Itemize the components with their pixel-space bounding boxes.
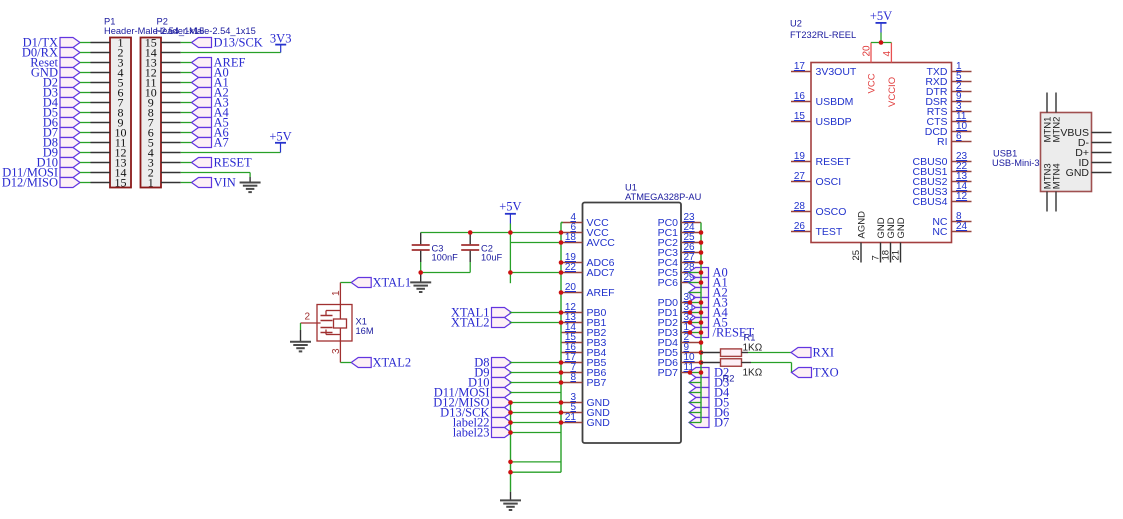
U1 pin 11 PD7 (right): [658, 362, 701, 379]
svg-text:D12/MISO: D12/MISO: [2, 176, 58, 190]
net flag D9 (at U1): [474, 366, 511, 380]
svg-text:AVCC: AVCC: [587, 237, 616, 249]
wire XTAL1 to U1: [510, 312, 562, 314]
wire D11/MOSI to U1: [510, 392, 562, 394]
svg-text:TEST: TEST: [816, 226, 843, 238]
U2 pin 2 DTR (right): [926, 81, 972, 98]
U2 pin 11 CTS (right): [927, 111, 972, 128]
wire A7 to P2: [181, 142, 192, 144]
svg-text:16: 16: [794, 91, 806, 102]
USB1 pin MTN3 (bottom): [1043, 163, 1054, 211]
wire D6 stub: [689, 412, 701, 414]
wire RESET to P2: [181, 162, 192, 164]
wire label22 to U1: [510, 422, 562, 424]
net flag A2 (right of U1): [689, 286, 728, 300]
wire A0 to P2: [181, 72, 192, 74]
U1 pin 12 PB0 (left): [561, 302, 607, 319]
U2 pin 17 3V3OUT (left): [791, 61, 857, 78]
svg-text:FT232RL-REEL: FT232RL-REEL: [790, 30, 856, 40]
wire A1 stub: [689, 282, 702, 284]
net flag A7 (P2): [192, 136, 229, 150]
U1 pin 8 PB7 (left): [561, 372, 607, 389]
power symbol +5V (above U2): [870, 9, 892, 33]
ground symbol (below C3): [410, 282, 431, 292]
ground symbol (below U1): [500, 500, 521, 510]
U2 pin 19 RESET (left): [791, 151, 851, 168]
wire D9 to P1 pin 12: [80, 152, 91, 154]
svg-text:PD7: PD7: [658, 367, 679, 379]
net flag label22 (at U1): [453, 416, 512, 430]
wire bottom ground loop of U1: [511, 403, 562, 501]
svg-text:XTAL1: XTAL1: [373, 276, 412, 290]
svg-text:19: 19: [794, 151, 806, 162]
svg-text:label23: label23: [453, 426, 490, 440]
wire GND to P1 pin 4: [80, 72, 91, 74]
wire A5 to P2: [181, 122, 192, 124]
net flag D3 (P1 pin 6): [43, 86, 80, 100]
svg-text:USBDP: USBDP: [816, 116, 852, 128]
U1 pin 7 PB6 (left): [561, 362, 607, 379]
wire D7 stub: [689, 422, 701, 424]
svg-text:ATMEGA328P-AU: ATMEGA328P-AU: [625, 192, 701, 202]
net flag XTAL2 (crystal): [351, 356, 411, 370]
wire D5 to P1 pin 8: [80, 112, 91, 114]
svg-text:GND: GND: [896, 217, 907, 238]
svg-text:25: 25: [851, 250, 862, 261]
USB1 pin GND (right): [1066, 167, 1112, 179]
crystal X1 16M: [301, 283, 353, 363]
U1 pin 14 PB2 (left): [561, 322, 607, 339]
svg-text:AGND: AGND: [857, 211, 868, 239]
net flag /RESET (right of U1): [689, 326, 755, 340]
wire label23 to U1: [510, 432, 562, 434]
label R2 refdes: [723, 374, 735, 384]
svg-text:20: 20: [565, 282, 577, 293]
power symbol +5V (near U1): [499, 200, 521, 224]
U2 pin 1 TXD (right): [927, 61, 972, 78]
U1 pin 1 PD3 (right): [658, 322, 701, 339]
svg-text:GND: GND: [1066, 167, 1090, 179]
label C2 value 10uF: [481, 253, 503, 263]
wire vertical bus left of U1: [561, 223, 563, 473]
U1 pin 9 PD5 (right): [658, 342, 701, 359]
wire X1 pin2 to ground: [300, 323, 302, 342]
wire XTAL2 to U1: [510, 322, 562, 324]
label P1 refdes: [104, 17, 115, 27]
net flag XTAL2 (at U1 PB1): [451, 316, 512, 330]
capacitor C3 100nF: [412, 233, 430, 263]
header P2: [141, 36, 181, 190]
net flag D2 (right of U1): [689, 366, 729, 380]
svg-text:VIN: VIN: [214, 176, 236, 190]
svg-text:100nF: 100nF: [432, 253, 459, 263]
label P2 refdes: [157, 17, 168, 27]
U2 pin 8 NC (right): [932, 211, 971, 228]
net flag D11/MOSI (P1 pin 14): [2, 166, 80, 180]
net flag A6 (P2): [192, 126, 229, 140]
resistor R1 1KOhm: [701, 349, 748, 357]
X1 pin number 3: [331, 348, 342, 354]
U2 pin 26 TEST (left): [791, 221, 843, 238]
svg-text:U2: U2: [790, 19, 802, 29]
ground symbol (at X1): [290, 342, 311, 352]
net flag D8 (at U1): [474, 356, 511, 370]
ground symbol (near VIN): [240, 183, 261, 193]
wire A4 stub: [689, 312, 702, 314]
U2 pin 12 CBUS4 (right): [912, 191, 971, 208]
net flag A2 (P2): [192, 86, 229, 100]
net flag A5 (right of U1): [689, 316, 728, 330]
net flag A0 (P2): [192, 66, 229, 80]
wire A3 to P2: [181, 102, 192, 104]
label P2 value Header-Male-2.54_1x15: [156, 26, 256, 36]
net flag XTAL1 (crystal): [351, 276, 411, 290]
svg-text:21: 21: [565, 412, 577, 423]
U2 pin 7 GND (bottom): [871, 217, 888, 262]
svg-text:RXI: RXI: [813, 346, 835, 360]
wire D6 to P1 pin 9: [80, 122, 91, 124]
svg-text:1: 1: [148, 176, 154, 190]
wire D8 to P1 pin 11: [80, 142, 91, 144]
U1 pin 22 ADC7 (left): [561, 262, 615, 279]
svg-text:3V3OUT: 3V3OUT: [816, 66, 857, 78]
svg-text:15: 15: [115, 176, 127, 190]
net flag RXI: [791, 346, 834, 360]
label R2 value 1KOhm: [743, 368, 763, 379]
U1 pin 3 GND (left): [561, 392, 610, 409]
U2 pin 5 RXD (right): [925, 71, 971, 88]
net flag D12/MISO (at U1): [433, 396, 511, 410]
wire D0/RX to P1 pin 2: [80, 52, 91, 54]
net flag A3 (P2): [192, 96, 229, 110]
svg-text:18: 18: [565, 232, 577, 243]
svg-text:OSCO: OSCO: [816, 206, 847, 218]
svg-text:17: 17: [794, 61, 806, 72]
wire D12/MISO to P1 pin 15: [80, 182, 91, 184]
net flag D5 (right of U1): [689, 396, 729, 410]
net flag D10 (P1 pin 13): [36, 156, 80, 170]
svg-text:U1: U1: [625, 183, 637, 193]
wire /RESET stub: [689, 332, 702, 334]
wire C3/C2 bottom to ground: [421, 262, 471, 282]
wire +5V net top rail to U1: [421, 224, 561, 284]
svg-text:RESET: RESET: [816, 156, 852, 168]
net flag D13/SCK (P2): [192, 36, 263, 50]
U1 pin 31 PD1 (right): [658, 302, 701, 319]
U1 pin 32 PD2 (right): [658, 312, 701, 329]
svg-text:GND: GND: [587, 417, 611, 429]
net flag D13/SCK (at U1): [440, 406, 511, 420]
wire A6 to P2: [181, 132, 192, 134]
U1 pin 19 ADC6 (left): [561, 252, 615, 269]
svg-text:26: 26: [794, 221, 806, 232]
U1 pin 6 VCC (left): [561, 222, 609, 239]
svg-text:OSCI: OSCI: [816, 176, 842, 188]
power symbol 3V3: [270, 32, 292, 46]
net flag D10 (at U1): [468, 376, 512, 390]
label P1 value Header-Male-2.54_1x15: [104, 26, 204, 36]
U2 pin 14 CBUS3 (right): [912, 181, 971, 198]
wire D13/SCK to P2: [181, 42, 192, 44]
wire A3 stub: [689, 302, 702, 304]
net flag XTAL1 (at U1 PB0): [451, 306, 512, 320]
U1 pin 21 GND (left): [561, 412, 610, 429]
svg-text:ADC7: ADC7: [587, 267, 615, 279]
U2 pin 28 OSCO (left): [791, 201, 846, 218]
junction dots left bus: [418, 230, 563, 474]
svg-text:RESET: RESET: [214, 156, 253, 170]
U1 pin 28 PC5 (right): [658, 262, 701, 279]
wire D10 to U1: [510, 382, 562, 384]
svg-text:NC: NC: [932, 226, 948, 238]
U1 pin 18 AVCC (left): [561, 232, 615, 249]
label X1 value 16M: [356, 326, 374, 336]
label C3 value 100nF: [432, 253, 459, 263]
U1 pin 24 PC1 (right): [658, 222, 701, 239]
wire A1 to P2: [181, 82, 192, 84]
label C2: [481, 244, 493, 254]
wire net +5V from P2 pin 4: [181, 143, 281, 153]
net flag D12/MISO (P1 pin 15): [2, 176, 80, 190]
wire D8 to U1: [510, 362, 562, 364]
label C3: [432, 244, 444, 254]
label U2 refdes: [790, 19, 802, 29]
label R1 refdes: [744, 333, 756, 343]
wire A2 to P2: [181, 92, 192, 94]
svg-text:6: 6: [956, 131, 962, 142]
label U1 refdes: [625, 183, 637, 193]
wire D3 stub: [689, 382, 701, 384]
U2 pin 22 CBUS1 (right): [912, 161, 971, 178]
svg-text:15: 15: [794, 111, 806, 122]
wire A0 stub: [689, 272, 702, 274]
wire D5 stub: [689, 402, 701, 404]
net flag D11/MOSI (at U1): [434, 386, 512, 400]
USB1 pin VBUS (right): [1060, 127, 1111, 139]
wire D11/MOSI to P1 pin 14: [80, 172, 91, 174]
net flag A1 (right of U1): [689, 276, 728, 290]
USB1 pin MTN1 (top): [1043, 93, 1054, 143]
U2 pin 21 GND (bottom): [891, 217, 908, 262]
connector USB1 USB-Mini-3 body: [1041, 113, 1092, 192]
wire R1 to RXI: [748, 352, 791, 354]
net flag D0/RX (P1 pin 2): [22, 46, 80, 60]
power symbol +5V (near P2): [269, 130, 291, 144]
U1 pin 17 PB5 (left): [561, 352, 607, 369]
svg-text:TXO: TXO: [813, 366, 839, 380]
U2 pin 3 RTS (right): [927, 101, 972, 118]
svg-text:24: 24: [956, 221, 968, 232]
svg-text:XTAL2: XTAL2: [373, 356, 412, 370]
net flag label23 (at U1): [453, 426, 512, 440]
X1 pin number 1: [331, 290, 342, 296]
svg-text:USB1: USB1: [993, 149, 1017, 159]
net flag TXO: [792, 366, 839, 380]
wire D2 stub: [689, 372, 701, 374]
svg-text:+5V: +5V: [870, 9, 892, 23]
U2 pin 24 NC (right): [932, 221, 971, 238]
svg-text:X1: X1: [356, 317, 367, 327]
wire D2 to P1 pin 5: [80, 82, 91, 84]
net flag A0 (right of U1): [689, 266, 728, 280]
USB1 pin D- (right): [1078, 137, 1112, 149]
junction dot U2 +5V: [879, 40, 884, 45]
U1 pin 10 PD6 (right): [658, 352, 701, 369]
net flag Reset (P1 pin 3): [30, 56, 80, 70]
USB1 pin MTN4 (bottom): [1052, 163, 1063, 211]
wire D3 to P1 pin 6: [80, 92, 91, 94]
U2 pin 16 USBDM (left): [791, 91, 853, 108]
svg-text:27: 27: [794, 171, 806, 182]
net flag D4 (P1 pin 7): [43, 96, 80, 110]
label X1 refdes: [356, 317, 367, 327]
U2 pin 18 GND (bottom): [881, 217, 898, 262]
net flag VIN (P2): [192, 176, 236, 190]
U1 pin 30 PD0 (right): [658, 292, 701, 309]
net flag A4 (P2): [192, 106, 230, 120]
svg-text:USBDM: USBDM: [816, 96, 854, 108]
U2 pin 10 DCD (right): [925, 121, 972, 138]
label U2 value FT232RL-REEL: [790, 30, 856, 40]
svg-text:VCC: VCC: [867, 73, 878, 93]
U2 pin 13 CBUS2 (right): [912, 171, 971, 188]
net flag D5 (P1 pin 8): [43, 106, 80, 120]
net flag D6 (P1 pin 9): [43, 116, 80, 130]
U2 pin 4 VCCIO (top): [882, 43, 898, 108]
net flag AREF (P2): [192, 56, 246, 70]
U1 pin 27 PC4 (right): [658, 252, 701, 269]
wire D12/MISO to U1: [510, 402, 562, 404]
op IC U1 ATMEGA328P-AU body: [583, 203, 682, 444]
net flag D3 (right of U1): [689, 376, 729, 390]
wire A5 stub: [689, 322, 702, 324]
U1 pin 4 VCC (left): [561, 212, 609, 229]
wire D4 to P1 pin 7: [80, 102, 91, 104]
label USB1 refdes: [993, 149, 1017, 159]
svg-text:PB7: PB7: [587, 377, 607, 389]
wire XTAL1 at crystal: [340, 282, 351, 284]
net flag A5 (P2): [192, 116, 229, 130]
svg-text:D7: D7: [714, 416, 729, 430]
net flag D6 (right of U1): [689, 406, 729, 420]
wire D9 to U1: [510, 372, 562, 374]
capacitor C2 10uF: [461, 233, 479, 263]
net flag D7 (right of U1): [689, 416, 729, 430]
label USB1 value USB-Mini-3: [992, 158, 1040, 168]
svg-text:+5V: +5V: [499, 200, 521, 214]
U2 pin 25 AGND (bottom): [851, 211, 868, 263]
svg-text:XTAL2: XTAL2: [451, 316, 490, 330]
U2 pin 9 DSR (right): [925, 91, 971, 108]
wire R2 to TXO: [751, 363, 792, 373]
svg-text:8: 8: [570, 372, 576, 383]
svg-text:16M: 16M: [356, 326, 374, 336]
USB1 pin D+ (right): [1075, 147, 1111, 159]
U2 pin 23 CBUS0 (right): [912, 151, 971, 168]
wire D13/SCK to U1: [510, 412, 562, 414]
wire VIN to P2: [181, 182, 192, 184]
wire Reset to P1 pin 3: [80, 62, 91, 64]
svg-text:20: 20: [862, 45, 873, 57]
wire AREF to P2: [181, 62, 192, 64]
net flag A4 (right of U1): [689, 306, 729, 320]
svg-text:1: 1: [331, 290, 342, 296]
svg-text:PC6: PC6: [658, 277, 679, 289]
wire D1/TX to P1 pin 1: [80, 42, 91, 44]
U1 pin 2 PD4 (right): [658, 332, 701, 349]
label U1 value ATMEGA328P-AU: [625, 192, 701, 202]
U1 pin 13 PB1 (left): [561, 312, 607, 329]
USB1 pin MTN2 (top): [1052, 93, 1063, 143]
U1 pin 23 PC0 (right): [658, 212, 701, 229]
svg-text:3V3: 3V3: [270, 32, 292, 46]
X1 pin number 2: [305, 312, 311, 323]
U2 pin 27 OSCI (left): [791, 171, 841, 188]
net flag D1/TX (P1 pin 1): [23, 36, 80, 50]
svg-text:2: 2: [305, 312, 311, 323]
svg-text:A7: A7: [214, 136, 229, 150]
svg-text:R2: R2: [723, 374, 735, 384]
wire A2 stub: [689, 292, 702, 294]
U2 pin 20 VCC (top): [862, 43, 878, 94]
svg-text:P1: P1: [104, 17, 115, 27]
net flag A1 (P2): [192, 76, 229, 90]
U1 pin 29 PC6 (right): [658, 272, 701, 289]
net flag D7 (P1 pin 10): [43, 126, 80, 140]
wire D10 to P1 pin 13: [80, 162, 91, 164]
wire net 3V3 from P2 pin 14: [181, 45, 281, 53]
svg-text:R1: R1: [744, 333, 756, 343]
U2 pin 15 USBDP (left): [791, 111, 852, 128]
svg-text:VCCIO: VCCIO: [887, 77, 898, 107]
svg-text:3: 3: [331, 348, 342, 354]
U1 pin 5 GND (left): [561, 402, 610, 419]
svg-text:1KΩ: 1KΩ: [743, 368, 763, 379]
svg-text:12: 12: [956, 191, 968, 202]
svg-text:D13/SCK: D13/SCK: [214, 36, 263, 50]
wire A4 to P2: [181, 112, 192, 114]
wire XTAL2 at crystal: [340, 362, 351, 364]
svg-text:28: 28: [794, 201, 806, 212]
svg-text:22: 22: [565, 262, 577, 273]
svg-text:MTN4: MTN4: [1052, 163, 1063, 189]
svg-text:4: 4: [882, 51, 893, 57]
net flag D8 (P1 pin 11): [43, 136, 80, 150]
wire D7 to P1 pin 10: [80, 132, 91, 134]
net flag D9 (P1 pin 12): [43, 146, 80, 160]
net flag D4 (right of U1): [689, 386, 730, 400]
svg-text:AREF: AREF: [587, 287, 615, 299]
U2 pin 6 RI (right): [937, 131, 972, 148]
header P1: [91, 36, 132, 190]
svg-text:USB-Mini-3: USB-Mini-3: [992, 158, 1040, 168]
U1 pin 25 PC2 (right): [658, 232, 701, 249]
U1 pin 15 PB3 (left): [561, 332, 607, 349]
wire D4 stub: [689, 392, 701, 394]
net flag GND (P1 pin 4): [31, 66, 80, 80]
wire vertical bus right of U1: [700, 223, 702, 423]
svg-text:Header-Male-2.54_1x15: Header-Male-2.54_1x15: [156, 26, 256, 36]
U1 pin 16 PB4 (left): [561, 342, 607, 359]
resistor R2 1KOhm: [701, 359, 751, 367]
wire net GND from P2 pin 2: [181, 173, 250, 183]
svg-text:+5V: +5V: [269, 130, 291, 144]
IC U2 FT232RL-REEL body: [811, 63, 952, 243]
svg-text:RI: RI: [937, 136, 948, 148]
U1 pin 20 AREF (left): [561, 282, 615, 299]
svg-text:CBUS4: CBUS4: [912, 196, 947, 208]
wire +5V to U2 VCC/VCCIO: [871, 33, 891, 43]
